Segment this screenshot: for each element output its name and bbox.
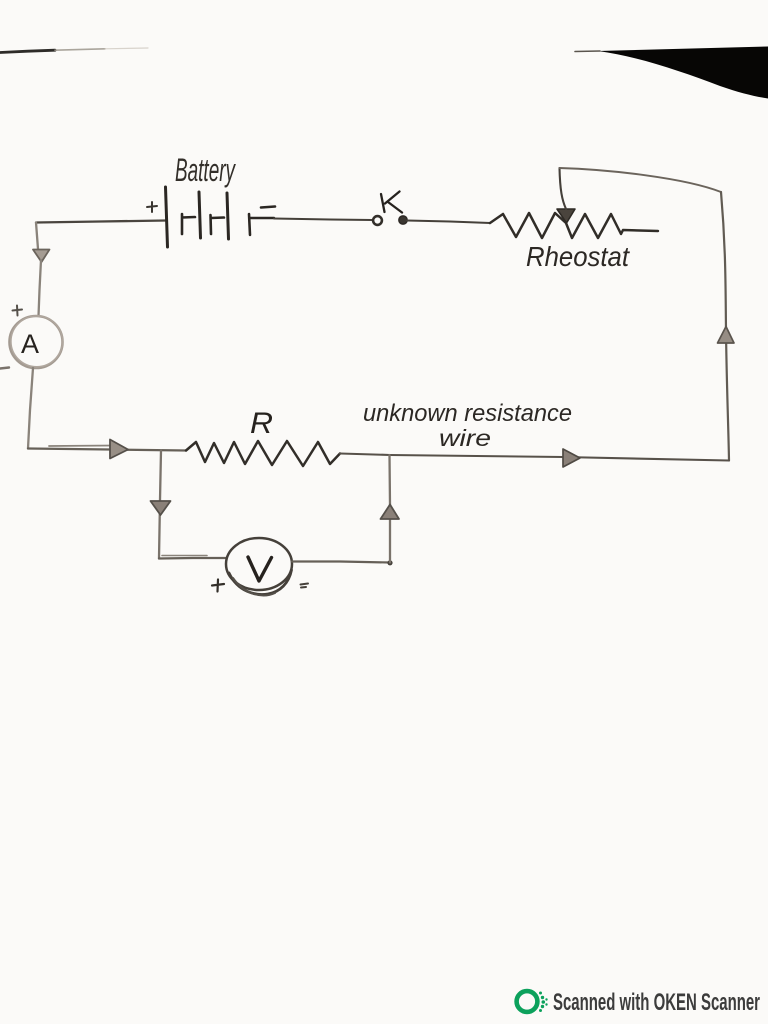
wire: corner to voltmeter left (159, 557, 227, 560)
voltmeter branch: right vertical (388, 455, 391, 563)
svg-text:R: R (250, 407, 273, 440)
wire: rheostat top arc to right side (560, 168, 722, 192)
top-left paper edge pencil line (0, 50, 55, 52)
resistor R1 zigzag body (186, 441, 340, 466)
battery B1 plus terminal label (147, 202, 157, 212)
svg-text:wire: wire (439, 425, 491, 451)
svg-text:Rheostat: Rheostat (526, 241, 630, 272)
arrow up on right wire (718, 327, 735, 344)
switch K1 terminal dots (373, 216, 382, 225)
wire: R to bottom-right corner (340, 454, 729, 461)
svg-text:Battery: Battery (175, 152, 236, 188)
voltmeter V1 body retrace strokes (229, 570, 292, 594)
rheostat RH1 wiper arrow (557, 209, 575, 223)
arrow right on bottom wire (563, 449, 580, 467)
wire: battery to switch (274, 219, 372, 221)
voltmeter branch: left vertical (159, 451, 161, 559)
junction dot at right branch bottom (387, 560, 392, 565)
ammeter A1 minus terminal label (0, 368, 9, 369)
switch K1 label "K" (381, 192, 402, 213)
arrow down on left wire (33, 250, 50, 263)
svg-text:A: A (21, 329, 39, 359)
ammeter A1 body circle (10, 316, 63, 368)
rheostat RH1 wiper stem wire (560, 168, 567, 209)
voltmeter V1 letter "V" (248, 557, 272, 581)
wire: down-left arrow segment below top-left node (36, 223, 38, 250)
voltmeter V1 minus terminal label (301, 584, 309, 588)
footer: OKEN scanner logo ring (517, 991, 538, 1012)
svg-text:unknown resistance: unknown resistance (363, 400, 572, 427)
wedge tip thin line (575, 50, 600, 53)
voltmeter V1 plus terminal label (212, 580, 224, 592)
wire: voltmeter right to right branch (292, 562, 390, 563)
wire: switch to rheostat (407, 221, 490, 224)
arrow up on right branch (381, 505, 400, 520)
wire: ammeter bottom to lower-left corner (28, 368, 33, 449)
wire: right vertical (721, 192, 729, 461)
svg-text:Scanned with OKEN Scanner: Scanned with OKEN Scanner (553, 989, 760, 1016)
rheostat RH1 zigzag body (490, 213, 658, 238)
logo speed dots (539, 992, 548, 1013)
ammeter A1 plus terminal label (13, 306, 23, 316)
wire: arrow to ammeter top (39, 260, 42, 316)
battery B1 minus terminal label (261, 207, 275, 208)
wire: top-left horizontal from node to battery (36, 221, 166, 223)
top-right black wedge (dark desk corner) (598, 47, 768, 99)
battery B1 cell plates (166, 187, 168, 247)
arrow right before R (110, 440, 128, 459)
voltmeter V1 body circle (226, 538, 292, 590)
retrace stroke above wire (49, 445, 115, 448)
wire: bottom-left horizontal to R (28, 449, 186, 451)
arrow down on left branch (151, 501, 171, 515)
